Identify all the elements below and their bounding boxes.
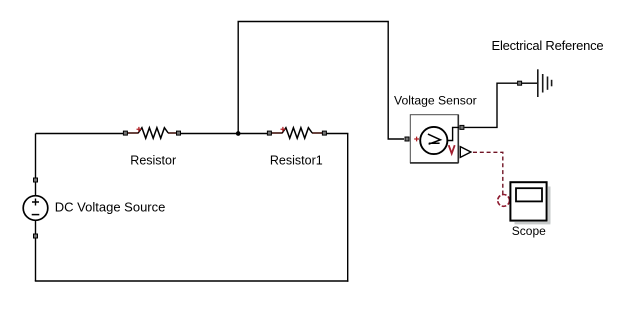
polarity mark + on Resistor bbox=[137, 127, 142, 132]
block right/bottom edge emphasis bbox=[410, 115, 459, 163]
op-amp U1: Voltage Sensor block bbox=[405, 115, 471, 163]
scope screen bbox=[516, 188, 542, 201]
wire: left vertical below DC source (bottom port to bottom corner) bbox=[35, 239, 37, 282]
wire: Resistor left lead (dark red) bbox=[128, 132, 139, 134]
resistor Resistor1 zigzag bbox=[282, 128, 312, 139]
svg-text:Voltage Sensor: Voltage Sensor bbox=[394, 94, 477, 108]
voltage source V1: DC Voltage Source bbox=[23, 178, 48, 238]
node: junction dot between resistors bbox=[236, 131, 241, 136]
port: Electrical Reference port square bbox=[518, 81, 522, 85]
polarity mark + at sensor input bbox=[414, 137, 419, 142]
port: Resistor right port square bbox=[177, 131, 181, 135]
wire: lead into ground bars bbox=[522, 82, 538, 84]
wire: branch from junction up, across top, down to Voltage Sensor input bbox=[238, 22, 404, 140]
wire: Resistor right lead (dark red) bbox=[168, 132, 177, 134]
wire: lead from top port to circle bbox=[35, 182, 37, 196]
scope drop shadow bbox=[515, 187, 551, 224]
port: Resistor1 left port square bbox=[267, 131, 271, 135]
wire: Resistor1 left lead (dark red) bbox=[272, 132, 283, 134]
wire: bottom horizontal of loop bbox=[35, 280, 349, 282]
port: DC source bottom port square bbox=[34, 234, 38, 238]
ground bar 4 (shortest) bbox=[551, 80, 553, 87]
port: Resistor left port square bbox=[123, 131, 127, 135]
wire: left vertical of loop (corner down to DC source top port) bbox=[35, 134, 37, 178]
resistor Resistor zigzag bbox=[138, 128, 168, 139]
ground bar 2 bbox=[542, 74, 544, 93]
minus sign inside source bbox=[32, 214, 40, 216]
node: red open circle (unconnected line end) bbox=[498, 195, 510, 207]
wire: lead from circle to bottom port bbox=[35, 220, 37, 234]
plus sign inside source bbox=[32, 199, 39, 206]
port: Resistor1 right port square bbox=[322, 131, 326, 135]
wire: unconnected dashed signal line from sensor output toward Scope bbox=[473, 152, 503, 194]
ground: Electrical Reference symbol bbox=[522, 69, 552, 97]
wire: right vertical of loop bbox=[347, 134, 349, 282]
ground bar 3 bbox=[547, 77, 549, 90]
label V (red) on sensor bbox=[449, 145, 455, 153]
scope block: Scope bbox=[510, 182, 550, 223]
block body Voltage Sensor bbox=[410, 115, 458, 163]
svg-text:Resistor: Resistor bbox=[130, 153, 176, 167]
port: sensor left port square bbox=[405, 137, 409, 141]
wire: segment between Resistor right port and Resistor1 left port (through junction) bbox=[181, 133, 267, 135]
svg-text:Electrical Reference: Electrical Reference bbox=[492, 38, 604, 53]
arrow glyph inside sensor circle bbox=[428, 134, 441, 144]
wire: Resistor1 right lead (dark red) bbox=[312, 132, 323, 134]
voltage source circle bbox=[23, 196, 48, 221]
svg-text:Resistor1: Resistor1 bbox=[270, 153, 323, 167]
polarity mark + on Resistor1 bbox=[281, 127, 286, 132]
port: sensor signal output triangle bbox=[460, 147, 471, 158]
wire: internal step from circle right to top-right port bbox=[447, 127, 459, 140]
wire: Resistor1 right port to top-right loop corner bbox=[327, 133, 349, 135]
port: sensor top-right port square bbox=[460, 125, 464, 129]
svg-text:DC Voltage Source: DC Voltage Source bbox=[55, 199, 166, 214]
wire: sensor top-right port to Electrical Reference bbox=[464, 83, 517, 127]
svg-text:Scope: Scope bbox=[512, 224, 546, 238]
sensor circle bbox=[420, 127, 447, 154]
scope outer box bbox=[510, 182, 546, 220]
port: DC source top port square bbox=[34, 178, 38, 182]
ground bar 1 (tallest) bbox=[537, 69, 539, 97]
resistor R: "Resistor" symbol bbox=[123, 127, 180, 138]
resistor R1: "Resistor1" symbol bbox=[267, 127, 326, 138]
wire: main loop top-left horizontal segment (corner to Resistor left port) bbox=[36, 133, 124, 135]
